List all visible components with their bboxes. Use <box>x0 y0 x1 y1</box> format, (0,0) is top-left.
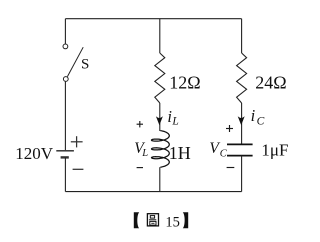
wire capacitor to bottom-right corner <box>241 156 243 192</box>
wire inductor to bottom rail <box>159 167 161 191</box>
svg-text:1H: 1H <box>169 143 191 163</box>
switch S terminal top <box>63 44 68 49</box>
resistor R2 24ohm zigzag <box>237 53 247 103</box>
wire bottom rail <box>65 191 241 193</box>
battery plus sign <box>71 136 83 147</box>
caption character 圖 (figure) <box>147 214 158 226</box>
wire right branch top <box>241 19 243 53</box>
switch S terminal bottom <box>63 77 68 82</box>
svg-text:V: V <box>209 140 220 157</box>
voltage VC minus <box>227 167 235 169</box>
wire battery to bottom-left corner <box>64 157 66 191</box>
battery minus sign <box>73 168 84 170</box>
svg-text:120V: 120V <box>15 144 54 163</box>
wire top rail <box>65 18 241 20</box>
wire left rail upper <box>64 19 66 44</box>
capacitor C1 plate top <box>227 143 253 145</box>
svg-text:12Ω: 12Ω <box>169 73 200 93</box>
svg-text:C: C <box>257 115 265 127</box>
caption bracket left 【 <box>134 212 139 228</box>
battery V1 long plate <box>56 150 74 152</box>
svg-text:L: L <box>141 148 148 159</box>
svg-text:S: S <box>81 57 89 73</box>
voltage VC plus <box>226 125 233 132</box>
switch S blade <box>67 47 83 76</box>
svg-text:1μF: 1μF <box>261 140 288 159</box>
wire R1 to inductor <box>159 103 161 131</box>
current arrow iC <box>239 117 244 124</box>
battery V1 short plate <box>61 156 69 158</box>
svg-text:15: 15 <box>165 214 180 230</box>
inductor L1 coil <box>152 131 170 168</box>
caption bracket right 】 <box>183 212 188 228</box>
voltage VL plus <box>137 121 143 127</box>
svg-text:L: L <box>171 116 178 128</box>
current arrow iL <box>157 117 162 124</box>
wire switch to battery <box>64 82 66 151</box>
wire middle branch top <box>159 19 161 53</box>
resistor R1 12ohm zigzag <box>155 53 165 103</box>
svg-text:24Ω: 24Ω <box>255 73 286 93</box>
capacitor C1 plate bottom <box>227 155 253 157</box>
svg-text:i: i <box>251 106 256 125</box>
svg-text:C: C <box>220 148 228 159</box>
wire R2 to capacitor <box>241 103 243 144</box>
voltage VL minus <box>137 167 143 169</box>
